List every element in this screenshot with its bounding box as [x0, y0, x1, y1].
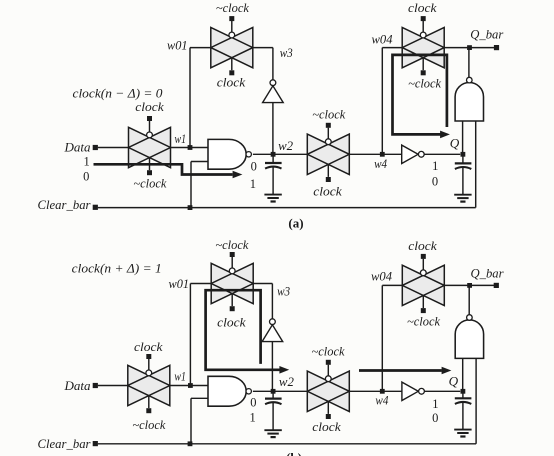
svg-text:w2: w2 — [279, 374, 294, 389]
node Clear_bar junction (a) — [188, 205, 193, 210]
ground at w2 (a) — [264, 195, 281, 202]
capacitor C1 (a) — [265, 163, 282, 169]
wire TG1 to NAND input w1 (b) — [170, 385, 208, 387]
wire capacitor to ground at Q (b) — [462, 403, 464, 430]
inverter U3 output (b) — [402, 382, 425, 400]
label 0 at NAND output (b) — [250, 396, 256, 410]
label ~clock above TG3 (b) — [312, 344, 345, 359]
label ~clock above TG2 (a) — [216, 0, 249, 15]
wire w3 down to inverter (a) — [272, 48, 274, 80]
svg-text:1: 1 — [250, 177, 256, 191]
wire TG2 to w3 corner (a) — [253, 47, 273, 49]
svg-text:1: 1 — [83, 154, 89, 168]
label clock below TG2 (a) — [217, 74, 246, 89]
svg-text:~clock: ~clock — [312, 106, 345, 121]
wire w01 bend to TG2 (b) — [190, 283, 211, 285]
wire inverter to w2 (a) — [272, 103, 274, 155]
wire NAND output through w2 to TG3 (b) — [253, 390, 307, 392]
node Q (a) — [450, 136, 466, 157]
label ~clock below TG1 (a) — [133, 176, 166, 191]
svg-text:0: 0 — [432, 411, 438, 425]
label 0 (a left) — [83, 170, 89, 184]
wire Data to TG1 (b) — [98, 385, 128, 387]
svg-text:~clock: ~clock — [215, 237, 248, 252]
wire w2 to capacitor (a) — [272, 154, 274, 162]
capacitor C2 (a) — [455, 163, 472, 169]
transmission gate TG2 (b) — [211, 252, 253, 311]
wire Q_bar down to NAND2 bubble (a) — [468, 48, 470, 78]
nand gate U1 (b) — [208, 376, 251, 406]
wire w04 vertical (a) — [381, 48, 383, 155]
svg-text:Q: Q — [450, 136, 460, 151]
wire w04 bend to TG4 (a) — [382, 47, 402, 49]
label clock below TG3 (b) — [312, 419, 341, 434]
label 1 at NAND output (a) — [250, 177, 256, 191]
wire TG2 to w3 corner (b) — [253, 283, 272, 285]
svg-text:w3: w3 — [280, 45, 293, 60]
svg-text:1: 1 — [432, 159, 438, 173]
node w2 (a) — [271, 138, 294, 157]
capacitor C2 (b) — [455, 398, 472, 404]
svg-text:(b): (b) — [286, 450, 302, 456]
wire TG3 through w4 to inverter (a) — [349, 153, 401, 155]
wire NAND2 right input to Clear_bar (a) — [475, 121, 477, 208]
svg-text:w4: w4 — [374, 156, 387, 171]
transmission gate TG3 (a) — [307, 123, 349, 182]
wire w3 down to inverter (b) — [271, 284, 273, 319]
label 1 at Q (a) — [432, 159, 438, 173]
label w04 (a) — [372, 32, 393, 47]
ground at Q (b) — [454, 430, 471, 437]
wire NAND2 left input to Q (b) — [462, 358, 464, 391]
feedback loop arrow (b) — [206, 290, 290, 373]
label clock below TG2 (b) — [217, 314, 246, 329]
annotation clock(n+delta)=1 (b) — [72, 260, 162, 275]
svg-text:w01: w01 — [169, 276, 190, 291]
svg-text:clock: clock — [408, 0, 437, 15]
node w1 (b) — [174, 368, 192, 388]
svg-text:0: 0 — [250, 396, 256, 410]
svg-text:Clear_bar: Clear_bar — [38, 436, 92, 451]
label ~clock below TG4 (a) — [408, 76, 441, 91]
inverter U3 output (a) — [402, 145, 424, 163]
svg-text:~clock: ~clock — [132, 417, 165, 432]
nand gate U1 (a) — [208, 139, 251, 169]
label 0 at Q (b) — [432, 411, 438, 425]
svg-text:Q_bar: Q_bar — [470, 26, 504, 41]
svg-text:Q_bar: Q_bar — [471, 265, 505, 280]
wire Q to capacitor (b) — [462, 391, 464, 397]
wire capacitor to ground (a) — [272, 167, 274, 194]
svg-text:clock(n − Δ) = 0: clock(n − Δ) = 0 — [73, 85, 164, 100]
svg-text:clock(n + Δ) = 1: clock(n + Δ) = 1 — [72, 260, 162, 275]
node Q_bar junction (b) — [467, 283, 472, 288]
label clock above TG4 (a) — [408, 0, 437, 15]
label 1 at NAND output (b) — [249, 411, 255, 425]
wire TG4 to Q_bar (a) — [444, 47, 496, 49]
inverter U2 feedback (a) — [263, 80, 284, 103]
label 1 (a left) — [83, 154, 89, 168]
label ~clock below TG4 (b) — [407, 313, 440, 328]
svg-text:w3: w3 — [277, 283, 290, 298]
transmission gate TG1 (a) — [129, 116, 171, 175]
svg-text:w04: w04 — [371, 268, 392, 283]
label w3 (b) — [277, 283, 290, 298]
svg-text:w1: w1 — [174, 368, 186, 383]
wire capacitor to ground at Q (a) — [462, 168, 464, 195]
node w2 (b) — [271, 374, 295, 394]
signal flow arrow to Q (b) — [359, 367, 451, 375]
svg-text:clock: clock — [408, 238, 437, 253]
wire Data to TG1 (a) — [98, 147, 129, 149]
terminal Clear_bar (b) — [38, 436, 98, 451]
nand gate U4 vertical (b) — [455, 315, 483, 359]
wire TG1 to NAND input w1 (a) — [171, 147, 209, 149]
terminal Q_bar (a) — [470, 26, 504, 50]
feedback loop arrow (a) — [393, 55, 450, 138]
label clock below TG3 (a) — [313, 183, 342, 198]
inverter U2 feedback (b) — [262, 319, 283, 342]
svg-text:0: 0 — [83, 170, 89, 184]
svg-text:clock: clock — [313, 183, 342, 198]
node w4 (a) — [374, 152, 387, 171]
svg-text:Clear_bar: Clear_bar — [38, 197, 92, 212]
svg-text:clock: clock — [217, 74, 246, 89]
svg-text:w4: w4 — [375, 392, 388, 407]
svg-text:w04: w04 — [372, 32, 393, 47]
caption (a) — [288, 215, 303, 230]
label clock above TG4 (b) — [408, 238, 437, 253]
transmission gate TG2 (a) — [211, 16, 253, 75]
svg-text:Data: Data — [64, 140, 92, 155]
svg-text:Data: Data — [64, 378, 92, 393]
label clock above TG1 (a) — [135, 99, 164, 114]
annotation clock(n-delta)=0 (a) — [73, 85, 164, 100]
label ~clock above TG2 (b) — [215, 237, 248, 252]
label clock above TG1 (b) — [134, 339, 163, 354]
nand gate U4 vertical (a) — [455, 77, 483, 121]
transmission gate TG1 (b) — [128, 354, 170, 413]
svg-text:Q: Q — [449, 373, 459, 388]
wire Clear_bar (a) — [98, 207, 476, 209]
transmission gate TG4 (b) — [402, 254, 444, 313]
svg-text:0: 0 — [251, 160, 257, 174]
wire inverter to w2 (b) — [271, 342, 273, 392]
wire NAND2 right input to Clear_bar (b) — [475, 358, 477, 443]
svg-text:clock: clock — [217, 314, 246, 329]
wire Q_bar down to NAND2 bubble (b) — [468, 285, 470, 315]
wire w2 to capacitor (b) — [272, 391, 274, 398]
svg-text:1: 1 — [249, 411, 255, 425]
signal path arrow 1-0 (a) — [94, 164, 243, 178]
ground at Q (a) — [454, 195, 471, 202]
label w01 (a) — [167, 37, 188, 52]
wire NAND output through w2 to TG3 (a) — [253, 153, 307, 155]
svg-text:(a): (a) — [288, 215, 303, 230]
node Clear_bar junction (b) — [188, 441, 193, 446]
node Q (b) — [449, 373, 466, 393]
wire w04 vertical (b) — [381, 285, 383, 391]
transmission gate TG4 (a) — [402, 16, 444, 75]
label ~clock below TG1 (b) — [132, 417, 165, 432]
wire NAND bottom input (b) — [191, 398, 208, 444]
svg-text:~clock: ~clock — [133, 176, 166, 191]
svg-text:w2: w2 — [278, 138, 293, 153]
label w3 (a) — [280, 45, 293, 60]
transmission gate TG3 (b) — [307, 360, 349, 419]
wire w01 vertical (a) — [189, 48, 191, 148]
node w1 (a) — [175, 131, 193, 150]
svg-text:0: 0 — [432, 175, 438, 189]
wire TG4 to Q_bar (b) — [444, 284, 496, 286]
wire Clear_bar (b) — [98, 443, 476, 445]
svg-text:~clock: ~clock — [312, 344, 345, 359]
label ~clock above TG3 (a) — [312, 106, 345, 121]
svg-text:~clock: ~clock — [216, 0, 249, 15]
svg-text:1: 1 — [432, 397, 438, 411]
terminal Data (b) — [64, 378, 98, 393]
wire w04 bend to TG4 (b) — [382, 284, 402, 286]
label 0 at NAND output (a) — [251, 160, 257, 174]
terminal Q_bar (b) — [471, 265, 505, 288]
wire inverter to Q (b) — [425, 390, 461, 392]
svg-text:w1: w1 — [175, 131, 187, 146]
wire inverter to Q (a) — [425, 153, 461, 155]
wire capacitor to ground (b) — [272, 403, 274, 430]
svg-text:~clock: ~clock — [407, 313, 440, 328]
label 0 at Q (a) — [432, 175, 438, 189]
capacitor C1 (b) — [265, 399, 282, 405]
label w04 (b) — [371, 268, 392, 283]
svg-text:clock: clock — [134, 339, 163, 354]
wire NAND bottom input (a) — [191, 162, 208, 208]
caption (b) — [286, 450, 302, 456]
terminal Clear_bar (a) — [38, 197, 98, 212]
wire Q to capacitor (a) — [462, 154, 464, 162]
wire NAND2 left input to Q (a) — [462, 121, 464, 154]
svg-text:w01: w01 — [167, 37, 188, 52]
wire TG3 through w4 to inverter (b) — [349, 390, 402, 392]
ground at w2 (b) — [264, 430, 281, 437]
wire w01 vertical (b) — [189, 284, 191, 386]
node Q_bar junction (a) — [467, 45, 472, 50]
node w4 (b) — [375, 389, 388, 407]
label 1 at Q (b) — [432, 397, 438, 411]
svg-text:clock: clock — [312, 419, 341, 434]
svg-text:~clock: ~clock — [408, 76, 441, 91]
terminal Data (a) — [64, 140, 98, 155]
svg-text:clock: clock — [135, 99, 164, 114]
label w01 (b) — [169, 276, 190, 291]
wire w01 bend to TG2 (a) — [190, 47, 211, 49]
